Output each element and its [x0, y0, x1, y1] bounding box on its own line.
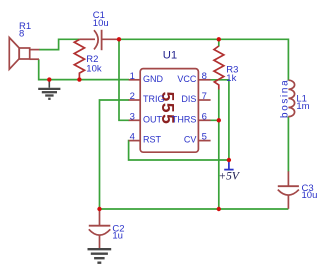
svg-text:4: 4 [130, 132, 135, 143]
svg-text:6: 6 [202, 111, 207, 122]
svg-text:VCC: VCC [177, 74, 197, 84]
svg-text:3: 3 [130, 111, 135, 122]
node: C1/OUT junction [117, 37, 121, 41]
node: THRS junction [217, 118, 221, 122]
inductor L1 coil [288, 80, 294, 116]
resistor R3 [214, 46, 224, 90]
wire: TRIG pin2 down to bottom rail [100, 100, 130, 209]
wire: RST pin4 down and right to +5V [129, 141, 229, 160]
wire: top rail C1 junction to R3 junction to top-right corner down to L1 [119, 39, 288, 80]
node: ground junction [47, 77, 51, 81]
svg-text:10u: 10u [93, 18, 109, 29]
svg-text:U1: U1 [163, 50, 177, 62]
svg-text:THRS: THRS [172, 114, 197, 124]
op-amp U1 box (555 timer) [140, 69, 198, 153]
svg-text:5: 5 [202, 132, 207, 143]
node: +5V junction [227, 158, 231, 162]
svg-text:1k: 1k [226, 73, 236, 84]
svg-text:OUT: OUT [143, 114, 163, 124]
pin stubs U1 [129, 80, 211, 141]
svg-text:bosina: bosina [280, 79, 291, 118]
wire: L1 bottom to C3 top [287, 116, 289, 171]
wire: R3 bottom to THRS column [218, 89, 220, 120]
ground (C2) [88, 249, 112, 263]
svg-text:1u: 1u [112, 230, 123, 241]
svg-text:8: 8 [202, 71, 207, 82]
capacitor C2 [89, 209, 111, 248]
node: THRS bottom junction [217, 207, 221, 211]
node: R2 bottom junction [77, 77, 81, 81]
svg-text:1: 1 [130, 71, 135, 82]
svg-text:TRIG: TRIG [143, 94, 165, 104]
wire: C1 junction down to OUT pin3 [119, 39, 129, 120]
svg-text:GND: GND [143, 74, 164, 84]
svg-text:CV: CV [184, 135, 197, 145]
resistor R2 [74, 40, 84, 79]
wire: bottom rail [100, 208, 289, 210]
svg-text:1m: 1m [296, 101, 309, 112]
capacitor C1 [79, 30, 119, 50]
wire: speaker bottom to GND pin1 [39, 59, 129, 79]
ground (speaker) [38, 82, 60, 99]
wire: THRS pin6 to vertical and down to bottom rail [211, 120, 219, 209]
wire: VCC pin8 right and down to +5V [211, 80, 229, 160]
speaker R1 symbol [9, 38, 39, 70]
wire: speaker top to C1 [39, 39, 79, 49]
power +5V [224, 160, 233, 170]
wire: R3 top stem [218, 39, 220, 46]
node: R3 top junction [217, 37, 221, 41]
svg-text:DIS: DIS [181, 94, 196, 104]
node: C2/TRIG junction [97, 207, 101, 211]
svg-text:7: 7 [202, 91, 207, 102]
svg-text:2: 2 [130, 91, 135, 102]
capacitor C3 [278, 171, 299, 209]
svg-text:+5V: +5V [218, 170, 241, 182]
svg-text:10u: 10u [302, 190, 318, 201]
svg-text:RST: RST [143, 135, 162, 145]
svg-text:8: 8 [19, 29, 24, 40]
svg-text:10k: 10k [86, 64, 102, 75]
